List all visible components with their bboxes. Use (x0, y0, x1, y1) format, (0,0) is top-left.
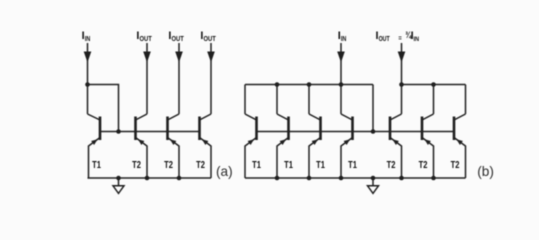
svg-text:(b): (b) (477, 164, 494, 179)
svg-text:T2: T2 (451, 160, 460, 171)
svg-text:T2: T2 (196, 160, 205, 171)
svg-text:T1: T1 (348, 160, 357, 171)
svg-text:OUT: OUT (140, 34, 153, 43)
svg-text:OUT: OUT (172, 34, 185, 43)
svg-text:T2: T2 (419, 160, 428, 171)
svg-text:OUT: OUT (204, 34, 217, 43)
svg-text:T2: T2 (132, 160, 141, 171)
svg-text:T1: T1 (252, 160, 261, 171)
svg-text:(a): (a) (216, 164, 233, 179)
svg-text:T1: T1 (284, 160, 293, 171)
svg-text:T2: T2 (164, 160, 173, 171)
svg-text:OUT: OUT (379, 34, 390, 43)
svg-text:IN: IN (414, 36, 420, 43)
svg-text:T2: T2 (387, 160, 396, 171)
svg-text:IN: IN (341, 34, 347, 43)
svg-text:IN: IN (85, 34, 91, 43)
svg-text:T1: T1 (92, 160, 101, 171)
svg-text:=: = (398, 34, 402, 43)
svg-text:T1: T1 (316, 160, 325, 171)
